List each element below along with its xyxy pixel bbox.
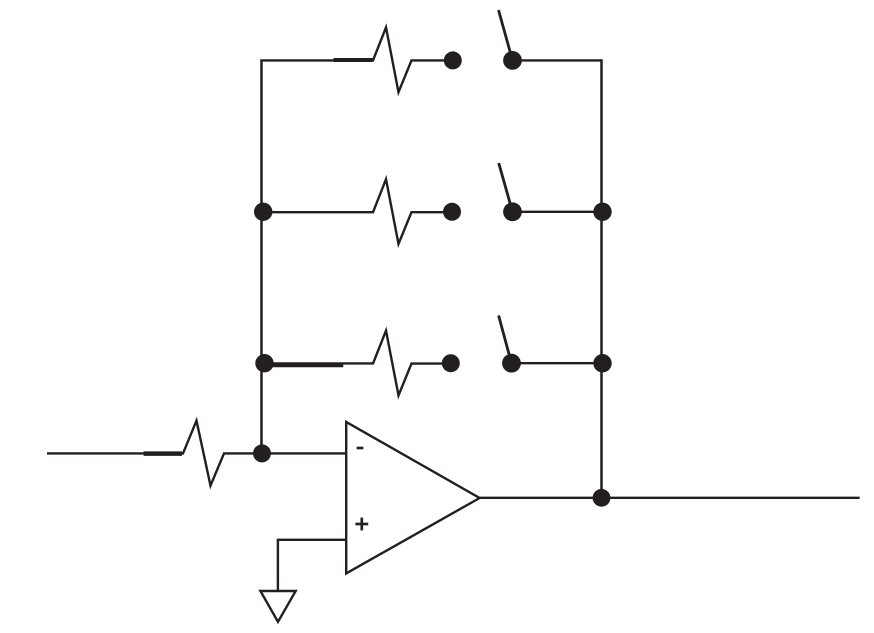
node: resistor R4 right terminal dot (442, 354, 460, 372)
node: output junction dot (right bus to output) (593, 489, 611, 507)
switch S1 (row 1, open lever) (499, 10, 513, 60)
switch S2 (row 2, open lever) (499, 163, 513, 212)
node: inverting input junction dot (253, 444, 271, 462)
wire: row 3 left lead (262, 363, 375, 365)
wire: input line (left) (47, 452, 184, 455)
wire: row 2 right lead to right bus (513, 211, 602, 213)
resistor R3 (feedback row 2) (373, 179, 445, 244)
wire: left feedback bus (vertical) (260, 60, 263, 453)
wire: non-inverting input to ground (278, 540, 346, 591)
resistor R4 (feedback row 3) (373, 331, 445, 396)
node: row 3 junction dot on left bus (255, 354, 273, 372)
node: resistor R3 right terminal dot (443, 203, 461, 221)
wire: row 3 right lead to right bus (512, 362, 602, 364)
node: switch S2 pole dot (503, 202, 522, 221)
node: resistor R2 right terminal dot (444, 51, 462, 69)
wire: inverting input node to op-amp (262, 452, 347, 454)
node: switch S3 pole dot (502, 354, 521, 373)
wire: row 1 right lead to right bus (513, 59, 602, 61)
switch S3 (row 3, open lever) (499, 316, 512, 364)
ground symbol (260, 591, 295, 622)
resistor R1 (input resistor) (183, 421, 253, 486)
op-amp U1 non-inverting input label (+) (355, 518, 368, 531)
op-amp U1 (triangle body) (346, 422, 479, 574)
node: switch S1 pole dot (503, 51, 522, 70)
op-amp U1 inverting input label (-) (357, 447, 364, 450)
wire: output line (479, 497, 860, 499)
wire: right feedback bus (vertical) (600, 59, 603, 498)
wire: row 1 left lead (260, 59, 374, 62)
resistor R2 (feedback row 1) (373, 27, 445, 92)
node: row 2 junction dot on right bus (593, 203, 611, 221)
node: row 3 junction dot on right bus (593, 354, 611, 372)
node: row 2 junction dot on left bus (254, 203, 272, 221)
wire: row 2 left lead (262, 211, 375, 213)
